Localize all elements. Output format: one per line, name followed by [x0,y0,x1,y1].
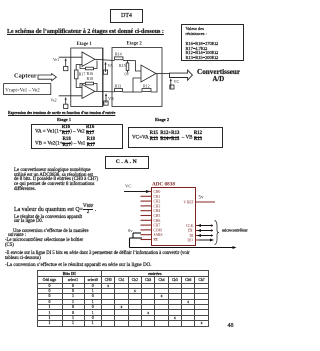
ADC0838 chip diagram [115,170,248,252]
title line [7,29,164,35]
left paragraph [14,169,124,193]
pin CH3 [141,205,152,207]
svg-text:Vcapt=Ve1 – Ve2: Vcapt=Ve1 – Ve2 [5,89,40,94]
svg-text:VB: VB [108,96,114,101]
arrows CLK CS DI from microcontroller [199,226,212,241]
wire VB rail [95,90,115,93]
svg-text:R18: R18 [87,76,94,81]
svg-text:VA: VA [108,63,114,68]
svg-text:Ve1: Ve1 [53,58,59,62]
pin CH6 [141,219,152,221]
pin CH2 [141,200,152,202]
block arrow to converter [170,70,193,80]
svg-text:DI: DI [190,234,195,238]
stage 1 enclosure box [71,48,103,107]
resistor R17 [75,70,78,79]
op-amp U3 (stage2) [141,65,156,82]
box DT4 [110,9,143,23]
svg-text:R12: R12 [143,83,150,88]
resistor R16 [80,65,86,69]
wire Ve2 to op-amp U2 + input [59,95,82,97]
arrowheads CLK CS DI DO [197,224,201,227]
svg-text:0v: 0v [128,228,133,233]
svg-text:CH7: CH7 [154,224,161,228]
svg-text:V REF: V REF [184,200,194,204]
svg-text:Etage 2: Etage 2 [127,41,143,46]
op-amp U2 (stage1 bottom) [82,84,95,98]
svg-text:R15: R15 [119,63,126,68]
pin labels [154,190,195,242]
svg-text:VC: VC [125,184,131,189]
resistor values box [181,24,244,61]
svg-text:R14: R14 [115,52,122,57]
junction dots [211,225,213,227]
Vcapt box [4,84,51,95]
wire VC to CH0 [124,191,147,193]
pin CH5 [141,215,152,217]
brace microcontroller [215,221,219,245]
pin SARS [141,234,152,236]
svg-text:VC: VC [174,79,180,84]
svg-text:SE: SE [154,238,159,242]
svg-text:CH1: CH1 [154,195,161,199]
wire to U3 - input [133,78,141,92]
wire U1 inverting input [76,65,82,71]
pin CS [196,230,214,232]
svg-text:CH6: CH6 [154,219,161,223]
wire R17 to U2 inverting input [76,79,82,88]
heading expressions [8,111,115,115]
formula box stage 1 [31,124,123,149]
svg-text:0V: 0V [125,72,130,77]
pin VREF [196,201,216,203]
op-amp U1 (stage1 top) [82,52,95,67]
pin CH1 [141,195,152,197]
svg-text:Etage 1: Etage 1 [77,42,93,47]
node VA arrow [105,64,107,73]
svg-text:SARS: SARS [154,233,163,237]
svg-text:DO: DO [188,238,194,242]
chip U4 body [152,188,196,246]
pin CH7 [141,224,152,226]
node VC arrow [170,80,172,89]
amplifier schematic [0,38,248,112]
node VB arrow [105,95,107,103]
wire VA rail [95,59,115,60]
svg-text:CH2: CH2 [154,200,161,204]
stage 2 enclosure box [112,48,162,107]
channel select table [37,270,209,327]
capteur block arrow [38,74,56,81]
svg-text:CH5: CH5 [154,214,161,218]
svg-text:CH4: CH4 [154,209,161,213]
svg-text:COM: COM [154,228,163,232]
pin CLK [196,225,214,227]
label Etage 1 (formulas) [57,117,71,122]
svg-text:R17: R17 [79,71,86,76]
svg-text:microcontrôleur: microcontrôleur [222,229,248,233]
pin DI [196,235,214,237]
svg-text:5v: 5v [199,196,205,201]
pin CH4 [141,210,152,212]
svg-text:CH3: CH3 [154,204,161,208]
pin CH0 [141,191,152,193]
svg-text:ADC 0838: ADC 0838 [152,182,175,188]
svg-text:CLK: CLK [186,224,194,228]
pin COM [141,229,152,231]
svg-text:R13: R13 [115,83,122,88]
label Etage 2 (formulas) [155,117,169,122]
page number [228,323,234,329]
pin DO [196,239,214,241]
wire to op-amp U3 + input [136,61,142,72]
svg-text:Capteur: Capteur [14,72,37,79]
wire Ve1 to op-amp U1 + input [59,56,82,58]
converter A/D arrow + label [168,69,196,82]
formula box stage 2 [128,127,223,148]
wire VC output [156,73,170,75]
svg-text:Ve2: Ve2 [51,98,57,102]
pin SE [141,239,152,241]
ground wire COM/SARS/SE [130,233,235,248]
svg-text:CH0: CH0 [154,190,161,194]
box C.A.N [105,156,149,169]
svg-text:CS: CS [188,229,192,233]
